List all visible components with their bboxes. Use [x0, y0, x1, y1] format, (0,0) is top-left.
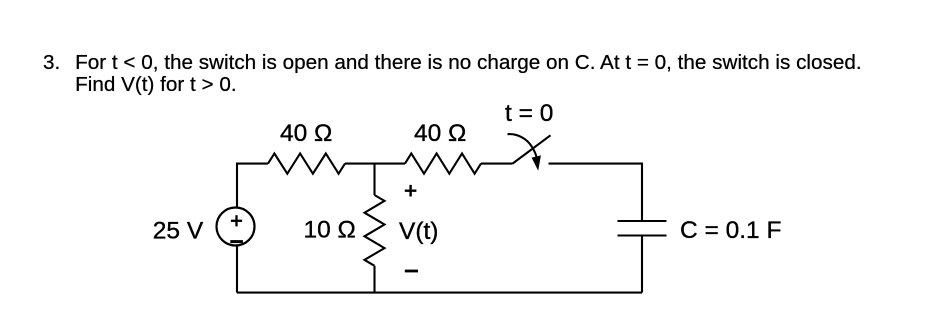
wire top-left segment	[237, 164, 268, 208]
svg-text:V(t): V(t)	[399, 218, 438, 245]
wire R3 to bottom wire	[373, 266, 375, 293]
svg-text:t = 0: t = 0	[505, 100, 553, 127]
plus mark of V(t)	[405, 185, 417, 197]
svg-text:25 V: 25 V	[153, 217, 204, 244]
wire capacitor to bottom-right corner	[641, 236, 643, 293]
switch closing arc arrow	[508, 134, 541, 171]
resistor R2 40ohm (right horizontal zigzag)	[405, 154, 481, 174]
svg-text:10 Ω: 10 Ω	[304, 217, 356, 244]
resistor R3 10ohm (vertical zigzag)	[365, 195, 385, 266]
wire bottom-left (source to bottom wire)	[236, 245, 238, 292]
svg-text:40 Ω: 40 Ω	[280, 120, 332, 147]
capacitor C1 plates	[618, 221, 667, 236]
svg-text:40 Ω: 40 Ω	[414, 120, 466, 147]
svg-text:C = 0.1 F: C = 0.1 F	[680, 217, 781, 244]
node A branch wire down to R3	[373, 164, 375, 195]
bottom wire	[237, 292, 642, 294]
switch SW1 blade (open)	[513, 135, 551, 163]
problem number	[43, 52, 60, 74]
minus mark of V(t)	[405, 270, 418, 273]
source plus mark	[231, 215, 242, 226]
resistor R1 40ohm (left horizontal zigzag)	[268, 154, 345, 174]
wire between R1 and R2	[345, 163, 405, 165]
wire switch to top-right corner	[549, 164, 643, 221]
voltage source V1 circle	[217, 208, 255, 246]
problem statement text	[75, 52, 862, 97]
wire R2 to switch	[481, 163, 513, 165]
source minus mark	[230, 240, 243, 243]
